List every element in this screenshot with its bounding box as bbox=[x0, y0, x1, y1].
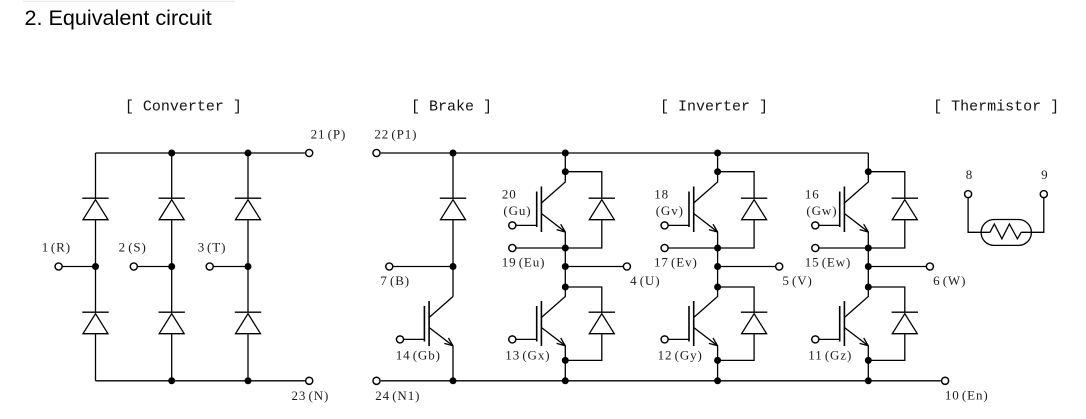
terminal 21(P) bbox=[306, 149, 313, 156]
svg-text:[ Thermistor ]: [ Thermistor ] bbox=[933, 98, 1059, 115]
svg-text:1(R): 1(R) bbox=[42, 240, 71, 255]
wire upper freewheel return 5(V) bbox=[718, 220, 755, 248]
wire emitter to mid 4(U) bbox=[564, 248, 566, 267]
diode upper freewheel 4(U) bbox=[589, 198, 615, 220]
junction bottom rail 5(V) bbox=[714, 377, 721, 384]
junction upper split 6(W) bbox=[865, 168, 872, 175]
wire output 6(W) bbox=[868, 266, 926, 268]
junction inverter leg 5(V) top rail bbox=[714, 150, 721, 157]
diode converter leg3 lower bbox=[235, 312, 261, 334]
wire converter leg2 top segment bbox=[171, 153, 173, 198]
wire P1 top rail bbox=[381, 152, 869, 154]
svg-text:10(En): 10(En) bbox=[945, 388, 989, 403]
wire mid to lower split 4(U) bbox=[564, 267, 566, 288]
junction lower emitter 5(V) bbox=[714, 357, 721, 364]
wire terminal 7(B) to node bbox=[394, 266, 453, 268]
svg-text:[ Brake ]: [ Brake ] bbox=[411, 98, 492, 115]
junction lower split 4(U) bbox=[562, 284, 569, 291]
terminal 15(Ew) bbox=[812, 244, 819, 251]
wire thermistor left lead bbox=[968, 198, 990, 233]
wire lower emitter to bottom rail 4(U) bbox=[564, 360, 566, 380]
diode upper freewheel 5(V) branch bbox=[718, 172, 755, 199]
wire top rail to split 5(V) bbox=[717, 153, 719, 172]
junction inverter leg 4(U) top rail bbox=[562, 150, 569, 157]
svg-text:[ Converter ]: [ Converter ] bbox=[125, 98, 242, 115]
diode upper freewheel 6(W) bbox=[892, 198, 918, 220]
junction bottom rail 4(U) bbox=[562, 377, 569, 384]
diode lower freewheel 6(W) bbox=[892, 312, 918, 334]
wire emitter to mid 5(V) bbox=[717, 248, 719, 267]
junction lower emitter 4(U) bbox=[562, 357, 569, 364]
wire output 4(U) bbox=[565, 266, 623, 268]
svg-text:(Gu): (Gu) bbox=[503, 203, 531, 218]
junction lower split 6(W) bbox=[865, 284, 872, 291]
wire N1 bottom rail bbox=[381, 380, 941, 382]
svg-text:23(N): 23(N) bbox=[292, 388, 330, 403]
wire top rail to split 4(U) bbox=[564, 153, 566, 172]
junction mid output node 5(V) bbox=[714, 263, 721, 270]
svg-text:7(B): 7(B) bbox=[380, 273, 410, 288]
transistor upper IGBT 20(Gu) bbox=[509, 172, 566, 248]
junction converter leg2 mid node bbox=[168, 263, 175, 270]
wire brake leg to diode bbox=[452, 153, 454, 198]
wire mid to lower split 5(V) bbox=[717, 267, 719, 288]
terminal 2(S) bbox=[130, 263, 137, 270]
transistor lower IGBT 12(Gy) bbox=[661, 287, 718, 360]
wire converter leg3 middle segment bbox=[247, 220, 249, 313]
junction node 7(B) bbox=[450, 263, 457, 270]
wire sense terminal 19(Eu) bbox=[516, 247, 565, 249]
diode upper freewheel 5(V) bbox=[741, 198, 767, 220]
junction upper split 5(V) bbox=[714, 168, 721, 175]
svg-text:21(P): 21(P) bbox=[311, 127, 347, 142]
transistor upper IGBT 18(Gv) bbox=[661, 172, 718, 248]
junction converter leg3 top rail bbox=[245, 150, 252, 157]
diode converter leg1 upper bbox=[82, 198, 108, 220]
wire converter leg2 middle segment bbox=[171, 220, 173, 313]
svg-text:17(Ev): 17(Ev) bbox=[654, 254, 698, 269]
diode lower freewheel 6(W) branch bbox=[868, 287, 905, 312]
svg-text:24(N1): 24(N1) bbox=[375, 388, 420, 403]
svg-text:(Gw): (Gw) bbox=[806, 203, 837, 218]
svg-text:15(Ew): 15(Ew) bbox=[805, 254, 852, 269]
diode lower freewheel 4(U) branch bbox=[565, 287, 602, 312]
wire converter leg1 bottom segment bbox=[95, 334, 97, 381]
wire converter leg1 top segment bbox=[95, 153, 97, 198]
junction mid output node 6(W) bbox=[865, 263, 872, 270]
junction converter leg3 bottom rail bbox=[245, 377, 252, 384]
wire mid to lower split 6(W) bbox=[867, 267, 869, 288]
svg-text:4(U): 4(U) bbox=[630, 273, 660, 288]
svg-text:22(P1): 22(P1) bbox=[374, 127, 417, 142]
svg-text:6(W): 6(W) bbox=[933, 273, 966, 288]
wire lower freewheel return 5(V) bbox=[718, 334, 755, 361]
terminal 1(R) bbox=[55, 263, 62, 270]
cropped text remnant top edge bbox=[23, 0, 235, 3]
diode converter leg3 upper bbox=[235, 198, 261, 220]
wire node B to brake IGBT collector bbox=[452, 267, 454, 297]
terminal 6(W) bbox=[926, 263, 933, 270]
wire top rail to split 6(W) bbox=[867, 153, 869, 172]
junction lower emitter 6(W) bbox=[865, 357, 872, 364]
transistor lower IGBT 13(Gx) bbox=[509, 287, 566, 360]
junction bottom rail 6(W) bbox=[865, 377, 872, 384]
junction lower split 5(V) bbox=[714, 284, 721, 291]
terminal 22(P1) bbox=[373, 149, 380, 156]
svg-text:8: 8 bbox=[966, 167, 973, 182]
wire lower emitter to bottom rail 6(W) bbox=[867, 360, 869, 380]
terminal 19(Eu) bbox=[509, 244, 516, 251]
svg-text:12(Gy): 12(Gy) bbox=[658, 347, 703, 362]
wire terminal 3(T) to leg bbox=[213, 266, 248, 268]
diode brake bbox=[440, 198, 466, 220]
wire converter N bottom rail bbox=[96, 380, 305, 382]
junction upper split 4(U) bbox=[562, 168, 569, 175]
svg-text:[ Inverter ]: [ Inverter ] bbox=[660, 98, 768, 115]
wire thermistor right lead bbox=[1021, 198, 1044, 233]
terminal 4(U) bbox=[623, 263, 630, 270]
terminal 8 bbox=[965, 191, 972, 198]
svg-text:19(Eu): 19(Eu) bbox=[502, 254, 546, 269]
wire upper freewheel return 4(U) bbox=[565, 220, 602, 248]
terminal 9 bbox=[1040, 191, 1047, 198]
svg-text:11(Gz): 11(Gz) bbox=[808, 347, 852, 362]
junction brake emitter bottom rail bbox=[450, 377, 457, 384]
junction converter leg2 bottom rail bbox=[168, 377, 175, 384]
wire converter P top rail bbox=[96, 152, 305, 154]
wire emitter to mid 6(W) bbox=[867, 248, 869, 267]
wire converter leg3 bottom segment bbox=[247, 334, 249, 381]
junction emitter node 15(Ew) bbox=[865, 245, 872, 252]
svg-text:5(V): 5(V) bbox=[782, 273, 812, 288]
wire converter leg1 middle segment bbox=[95, 220, 97, 313]
diode lower freewheel 4(U) bbox=[589, 312, 615, 334]
junction emitter node 17(Ev) bbox=[714, 245, 721, 252]
wire brake diode to node B bbox=[452, 220, 454, 267]
wire sense terminal 17(Ev) bbox=[668, 247, 717, 249]
wire terminal 1(R) to leg bbox=[62, 266, 95, 268]
terminal 3(T) bbox=[206, 263, 213, 270]
terminal 23(N) bbox=[306, 377, 313, 384]
junction mid output node 4(U) bbox=[562, 263, 569, 270]
transistor 14(Gb) brake IGBT bbox=[396, 297, 453, 381]
terminal 24(N1) bbox=[373, 377, 380, 384]
wire converter leg2 bottom segment bbox=[171, 334, 173, 381]
diode converter leg1 lower bbox=[82, 312, 108, 334]
svg-text:3(T): 3(T) bbox=[198, 240, 227, 255]
svg-text:20: 20 bbox=[502, 187, 517, 202]
junction emitter node 19(Eu) bbox=[562, 245, 569, 252]
terminal 17(Ev) bbox=[661, 244, 668, 251]
terminal 10(En) bbox=[942, 377, 949, 384]
diode converter leg2 lower bbox=[159, 312, 185, 334]
wire lower freewheel return 4(U) bbox=[565, 334, 602, 361]
svg-text:9: 9 bbox=[1041, 167, 1048, 182]
junction converter leg1 mid node bbox=[92, 263, 99, 270]
svg-text:2(S): 2(S) bbox=[119, 240, 147, 255]
terminal 7(B) bbox=[386, 263, 393, 270]
transistor upper IGBT 16(Gw) bbox=[812, 172, 869, 248]
junction converter leg2 top rail bbox=[168, 150, 175, 157]
diode lower freewheel 5(V) bbox=[741, 312, 767, 334]
wire output 5(V) bbox=[718, 266, 776, 268]
svg-text:13(Gx): 13(Gx) bbox=[505, 347, 550, 362]
wire lower freewheel return 6(W) bbox=[868, 334, 905, 361]
diode converter leg2 upper bbox=[159, 198, 185, 220]
svg-text:(Gv): (Gv) bbox=[656, 203, 684, 218]
wire converter leg3 top segment bbox=[247, 153, 249, 198]
wire upper freewheel return 6(W) bbox=[868, 220, 905, 248]
terminal 5(V) bbox=[776, 263, 783, 270]
svg-text:16: 16 bbox=[805, 187, 820, 202]
wire lower emitter to bottom rail 5(V) bbox=[717, 360, 719, 380]
wire sense terminal 15(Ew) bbox=[819, 247, 868, 249]
transistor lower IGBT 11(Gz) bbox=[812, 287, 869, 360]
thermistor RT body bbox=[981, 220, 1031, 246]
diode lower freewheel 5(V) branch bbox=[718, 287, 755, 312]
diode upper freewheel 4(U) branch bbox=[565, 172, 602, 199]
junction brake leg top rail bbox=[450, 150, 457, 157]
junction converter leg3 mid node bbox=[245, 263, 252, 270]
svg-text:2. Equivalent circuit: 2. Equivalent circuit bbox=[25, 5, 212, 30]
svg-text:14(Gb): 14(Gb) bbox=[396, 347, 441, 362]
svg-text:18: 18 bbox=[654, 187, 669, 202]
diode upper freewheel 6(W) branch bbox=[868, 172, 905, 199]
wire terminal 2(S) to leg bbox=[137, 266, 171, 268]
